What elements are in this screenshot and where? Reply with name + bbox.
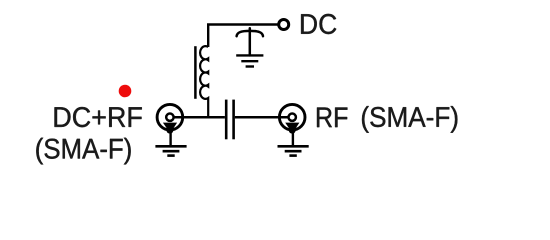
wire: J1 ground stem [169,131,171,146]
label (SMA-F) left [36,138,130,165]
wire: vertical from top wire down to inductor [207,25,209,48]
label (SMA-F) right [362,106,457,133]
connector J2 bottom wedge fill [285,123,299,134]
wire: top DC feed horizontal [207,23,278,26]
connector J2 RF (SMA-F) outer ring [279,104,305,130]
label RF [317,108,347,128]
capacitor C2 (curved-plate bypass to ground) [237,28,263,55]
connector J1 inner ring [166,114,173,121]
node DC terminal (open circle) [279,20,289,30]
inductor L1 core bar [194,46,197,99]
capacitor C1 (series blocking cap) [225,100,228,140]
connector J1 DC+RF (SMA-F) outer ring [157,104,183,130]
label DC [301,14,336,34]
marker: red dot [119,85,132,98]
connector J1 bottom wedge fill [163,123,177,134]
wire: main horizontal right segment [235,116,288,119]
wire: main horizontal left segment [174,116,225,119]
connector J2 inner ring [289,114,296,121]
ground (under J1) [155,146,186,155]
ground (under C2) [236,55,263,66]
label DC+RF [55,107,142,127]
inductor L1 coil (4 loops) [200,46,208,117]
wire: J2 ground stem [292,131,294,146]
ground (under J2) [278,146,309,155]
